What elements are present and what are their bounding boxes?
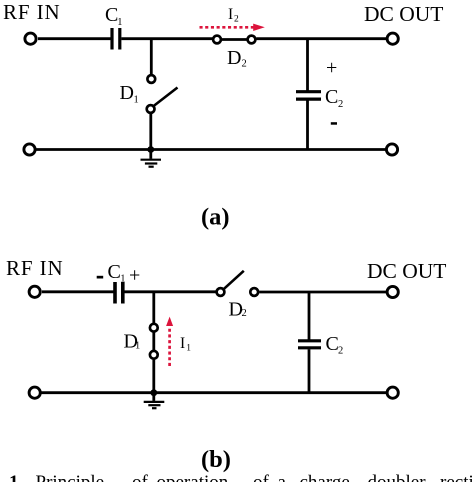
wire: node to diode D1 (a) xyxy=(150,39,153,75)
diode D1 (b) closed switch xyxy=(150,324,158,359)
wire: D1 to bottom wire (a) xyxy=(149,113,152,150)
svg-text:2: 2 xyxy=(338,99,343,110)
junction node (a) xyxy=(147,146,154,153)
capacitor C1 (b) xyxy=(115,282,123,304)
svg-text:(a): (a) xyxy=(201,204,230,231)
svg-text:charge: charge xyxy=(300,472,350,482)
svg-text:a: a xyxy=(278,472,287,482)
svg-text:I: I xyxy=(228,6,233,23)
label minus (a) xyxy=(331,122,337,125)
svg-text:+: + xyxy=(326,57,337,79)
label C2 (a) xyxy=(325,86,343,110)
svg-text:DC OUT: DC OUT xyxy=(364,2,443,26)
svg-text:1: 1 xyxy=(117,17,122,28)
junction node (b) xyxy=(150,389,157,396)
svg-text:2: 2 xyxy=(242,59,247,70)
label DC OUT (b) xyxy=(367,259,446,283)
svg-text:DC OUT: DC OUT xyxy=(367,259,446,283)
label C2 (b) xyxy=(326,333,344,357)
label plus (a) xyxy=(326,57,337,79)
caption (cut off at page bottom) xyxy=(9,472,474,482)
label (a) xyxy=(201,204,230,231)
diode D1 (a) open switch xyxy=(147,75,178,113)
svg-text:+: + xyxy=(129,265,140,287)
svg-text:2: 2 xyxy=(242,308,247,319)
label (b) xyxy=(201,446,231,473)
svg-text:1: 1 xyxy=(134,95,139,106)
svg-text:RF IN: RF IN xyxy=(3,0,61,24)
svg-text:2: 2 xyxy=(338,346,343,357)
svg-text:Principle: Principle xyxy=(36,472,105,482)
wire: D1 to bottom wire (b) xyxy=(152,359,155,393)
current arrow I2 (a) xyxy=(200,24,265,31)
label D1 (a) xyxy=(120,82,139,106)
label D2 (b) xyxy=(229,299,247,321)
svg-text:1.: 1. xyxy=(9,472,23,482)
label D2 (a) xyxy=(227,47,247,70)
capacitor C2 (a) xyxy=(296,92,321,150)
label plus (b) xyxy=(129,265,140,287)
svg-text:I: I xyxy=(180,335,185,352)
terminal right bottom (a) xyxy=(386,144,397,155)
label D1 (b) xyxy=(124,331,141,353)
svg-text:rectifier: rectifier xyxy=(440,472,474,482)
svg-text:(b): (b) xyxy=(201,446,231,473)
wire: C1 to D2 (b), node at D1 branch xyxy=(124,290,216,293)
svg-text:of: of xyxy=(132,472,149,482)
svg-text:C: C xyxy=(325,86,338,108)
bottom wire (a) xyxy=(36,148,387,151)
label RF IN (a) xyxy=(3,0,61,24)
wire: node to diode D1 (b) xyxy=(152,292,155,324)
terminal left bottom (b) xyxy=(29,387,40,398)
label C1 (b) xyxy=(108,261,126,285)
svg-text:C: C xyxy=(108,261,121,283)
label RF IN (b) xyxy=(6,256,64,280)
svg-text:D: D xyxy=(120,82,134,104)
label I2 (a) xyxy=(228,6,239,25)
label minus (b) xyxy=(97,276,104,279)
ground (b) xyxy=(144,393,165,409)
wire: D2 to DC OUT (b), node at C2 branch xyxy=(259,291,387,294)
ground (a) xyxy=(141,150,162,167)
svg-text:1: 1 xyxy=(135,341,140,352)
svg-text:operation: operation xyxy=(157,472,229,482)
diode D2 (a) closed switch xyxy=(213,36,255,44)
wire: D2 to DC OUT (a), node at C2 branch xyxy=(257,37,388,40)
svg-text:D: D xyxy=(227,47,241,69)
label I1 (b) xyxy=(180,335,191,354)
svg-text:doubler: doubler xyxy=(368,472,427,482)
current arrow I1 (b) xyxy=(166,317,173,366)
wire: RF IN to C1 (b) xyxy=(42,290,114,293)
wire: C1 to D2 (a), node at D1 branch xyxy=(121,37,213,40)
terminal right bottom (b) xyxy=(387,387,398,398)
svg-text:RF IN: RF IN xyxy=(6,256,64,280)
terminal RF IN top (b) xyxy=(29,286,40,297)
capacitor C1 (a) xyxy=(112,28,120,50)
label C1 (a) xyxy=(105,4,123,28)
svg-text:C: C xyxy=(326,333,339,355)
svg-text:2: 2 xyxy=(234,15,239,25)
wire: RF IN to C1 (a) xyxy=(38,37,111,40)
bottom wire (b) xyxy=(41,391,387,394)
label DC OUT (a) xyxy=(364,2,443,26)
wire: node to capacitor C2 (a) xyxy=(306,39,309,91)
svg-text:1: 1 xyxy=(186,344,191,354)
wire: node to capacitor C2 (b) xyxy=(308,292,311,340)
terminal DC OUT top (a) xyxy=(387,33,398,44)
svg-text:of: of xyxy=(253,472,270,482)
capacitor C2 (b) xyxy=(298,341,321,393)
terminal DC OUT top (b) xyxy=(387,286,398,297)
terminal left bottom (a) xyxy=(24,144,35,155)
diode D2 (b) open switch xyxy=(217,271,259,296)
terminal RF IN top (a) xyxy=(25,33,36,44)
